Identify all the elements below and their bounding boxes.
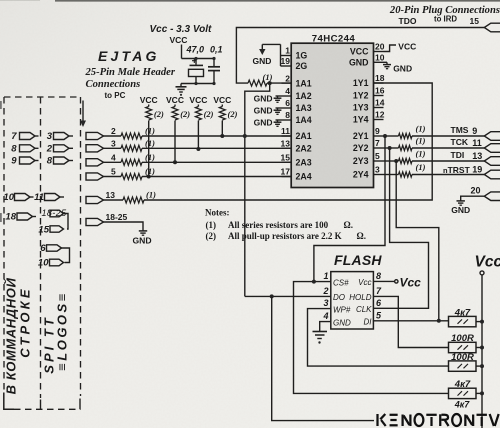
IC U1 74HC244 body	[291, 43, 373, 187]
IRD plug pin 9	[484, 132, 500, 141]
resistor pull-up (2) #2	[174, 105, 176, 107]
wire to Vcc rail	[476, 365, 482, 367]
wire WP#	[308, 309, 449, 367]
wire Vcc rail	[481, 275, 483, 428]
resistor 100R #3	[449, 361, 477, 371]
header plug wire 2	[86, 132, 104, 139]
bracket 6/10	[62, 248, 70, 263]
wire TMS row	[384, 135, 399, 137]
resistor series (1) on wire 3	[121, 145, 142, 151]
wire pull-up 4 to row	[221, 121, 223, 137]
wire	[267, 82, 291, 84]
wire nTRST row	[384, 174, 399, 176]
junction	[196, 147, 200, 151]
wire to Vcc rail	[476, 321, 482, 323]
resistor series (1) on wire 4	[121, 159, 142, 165]
IC U2 FLASH body	[331, 272, 374, 329]
junction CS#/TMS	[312, 280, 316, 284]
arrow to PC (down)	[82, 101, 84, 122]
wire to plug	[412, 147, 484, 149]
IRD plug pin 15	[484, 23, 500, 32]
resistor series (1) TDI	[399, 158, 413, 163]
pin 7 (2Y2)	[374, 147, 384, 149]
pin 6 (1A3)	[282, 107, 292, 109]
wire TDI net down to FLASH DI	[396, 161, 439, 321]
wire DO branch down to logo	[272, 296, 374, 420]
junction DI/TDI	[437, 319, 441, 323]
wire pull-up 3 to row	[197, 121, 199, 150]
resistor series (1) on wire 5	[121, 174, 142, 180]
pin 2 (1A1)	[282, 82, 292, 84]
pin 19 (2G)	[282, 65, 292, 67]
scan artifact: left edge marks	[0, 101, 2, 109]
wire TCK net down to FLASH CLK	[373, 148, 428, 308]
resistor series (1) nTRST	[399, 172, 413, 177]
resistor series (1) on wire 13	[123, 197, 144, 203]
junction	[394, 159, 398, 163]
pin 3 (2Y4)	[374, 174, 384, 176]
ground (1A row y=120.0)	[276, 119, 282, 121]
resistor 4к7 #4	[449, 388, 477, 398]
junction	[220, 134, 224, 138]
wire CS#	[294, 282, 449, 394]
junction	[147, 175, 151, 179]
wire GND pin4	[320, 322, 331, 331]
resistor series (1) TDO	[248, 80, 267, 86]
IRD plug pin 20	[484, 192, 500, 201]
wire to plug	[412, 135, 484, 137]
pin 14 (1Y3)	[374, 107, 384, 109]
junction	[480, 391, 484, 395]
pin 16 (1Y2)	[374, 95, 384, 97]
junction pin2	[268, 81, 272, 85]
wire 1G/2G to GND arrow	[262, 44, 281, 66]
pin 5 (2Y3)	[374, 160, 384, 162]
wire TDO from IRD plug to 1A1 series resistor	[236, 28, 484, 84]
wire	[104, 176, 122, 178]
wire to IC	[142, 161, 291, 163]
pin 8 (1A4)	[282, 119, 292, 121]
resistor 4к7 #1	[449, 316, 477, 326]
wire top rail	[182, 58, 215, 60]
wire bottom rail	[181, 83, 214, 85]
resistor pull-up (2) #1	[148, 105, 150, 107]
pin 12 (1Y4)	[374, 119, 384, 121]
wire	[104, 147, 122, 149]
junction	[480, 320, 484, 324]
junction DO	[270, 294, 274, 298]
resistor pull-up (2) #3	[197, 105, 199, 107]
wire	[104, 222, 144, 229]
ground (IRD 20)	[460, 199, 462, 201]
ground arrow (1G/2G)	[261, 44, 263, 49]
wire TMS net down to FLASH CS#	[314, 136, 385, 282]
junction	[480, 364, 484, 368]
ground (pin 10)	[384, 61, 388, 63]
wire pin 20 IRD	[461, 196, 485, 198]
pin 15 (2A3)	[282, 161, 292, 163]
wire: net TDI-from-PC vertical (wire2 to 1A1 and FLASH DO)	[245, 83, 270, 296]
ground (1A row y=108.0)	[276, 107, 282, 109]
capacitor C1 (electrolytic)	[195, 59, 197, 65]
ground (1A row y=96.0)	[276, 95, 282, 97]
wire	[104, 199, 124, 201]
pin 18-25 bracket top plug	[50, 210, 64, 217]
pin 4 (1A2)	[282, 95, 292, 97]
watermark KENOTRONTV	[378, 414, 499, 426]
junction	[383, 134, 387, 138]
junction	[173, 160, 177, 164]
junction	[388, 146, 392, 150]
pin 17 (2A4)	[282, 176, 292, 178]
resistor series (1) TCK	[399, 145, 413, 150]
wire to IC	[142, 147, 291, 149]
ground (FLASH)	[313, 331, 328, 333]
wire pin20 to VCC	[384, 45, 397, 52]
header plug wire 3	[86, 145, 104, 152]
resistor pull-up (2) #4	[221, 105, 223, 107]
wire to Vcc rail	[476, 392, 482, 394]
wire	[104, 135, 122, 137]
wire VCC stem	[181, 45, 183, 59]
header plug wire 18-25	[86, 218, 104, 225]
pin 9 (2Y1)	[374, 135, 384, 137]
IRD plug pin 13	[484, 157, 500, 166]
junction	[480, 346, 484, 350]
dashed box corner (solid)	[4, 393, 14, 410]
header plug wire 5	[86, 173, 104, 180]
resistor series (1) TMS	[399, 133, 413, 138]
wire	[104, 161, 122, 163]
resistor 100R #2	[449, 342, 477, 352]
pin 20 (VCC)	[374, 51, 384, 53]
pin 10 (GND)	[374, 61, 384, 63]
pin 1 (1G)	[282, 55, 292, 57]
pin 11 (2A1)	[282, 135, 292, 137]
IRD plug pin 11	[484, 144, 500, 153]
capacitor C2	[213, 59, 215, 67]
junction wire2	[243, 134, 247, 138]
resistor series (1) on wire 2	[121, 133, 142, 139]
25-pin connector dashed box	[3, 97, 5, 391]
IRD plug pin 19	[484, 170, 500, 179]
wire to plug	[412, 174, 484, 176]
wire pull-up 1 to row	[148, 121, 150, 177]
bracket 18-25/15	[64, 214, 69, 230]
ground (caps)	[180, 84, 182, 87]
scan artifact: top edge streak	[55, 0, 500, 2]
wire pull-up 2 to row	[174, 121, 176, 163]
wire to IC	[142, 135, 291, 137]
wire DO	[245, 295, 331, 297]
wire to Vcc rail	[476, 347, 482, 349]
wire TDI row	[384, 160, 399, 162]
wire 13 long run to 1Y1	[144, 83, 432, 200]
pin 18 (1Y1)	[374, 82, 384, 84]
wire to IC	[142, 176, 291, 178]
header plug wire 13	[86, 196, 104, 203]
header plug wire 4	[86, 159, 104, 166]
wire to plug	[412, 160, 484, 162]
ground (18-25)	[142, 229, 144, 231]
junction dots on cap rails	[194, 57, 197, 60]
wire Vcc pin8	[373, 280, 394, 282]
wire TCK row	[384, 147, 399, 149]
wire DI pin5	[373, 320, 448, 322]
wire HOLD pin7	[373, 296, 448, 347]
pin 13 (2A2)	[282, 147, 292, 149]
